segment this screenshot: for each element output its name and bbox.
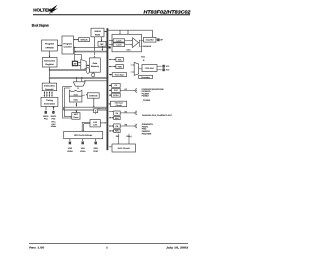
wire small box left down to IO box	[82, 121, 90, 123]
svg-text:VSS: VSS	[81, 147, 85, 149]
box audio amplifier	[144, 37, 157, 42]
svg-text:OSC2: OSC2	[51, 115, 57, 117]
svg-text:16K×8: 16K×8	[94, 31, 100, 33]
svg-text:PB3/PFD: PB3/PFD	[142, 131, 150, 133]
box PA data register	[114, 111, 121, 115]
svg-text:Data: Data	[93, 62, 98, 64]
wire bus-PC1	[109, 84, 111, 86]
svg-text:OSC1: OSC1	[43, 115, 49, 117]
svg-text:PA0/AUD~PA3, PA4/OSC1~PA7: PA0/AUD~PA3, PA4/OSC1~PA7	[142, 115, 172, 117]
svg-text:Time Base: Time Base	[115, 74, 125, 76]
svg-text:HT83F02/HT83C02: HT83F02/HT83C02	[143, 10, 190, 15]
wires bus to latches	[112, 40, 113, 41]
svg-text:VDDA: VDDA	[67, 150, 73, 152]
bus upper address path	[50, 69, 87, 71]
wire bus-PA2	[109, 117, 114, 119]
svg-text:Block Diagram: Block Diagram	[32, 23, 49, 27]
svg-text:PB2: PB2	[142, 128, 147, 130]
pad AUD output	[155, 39, 157, 41]
svg-text:Program: Program	[63, 43, 72, 45]
wire Data Memory down to ALU bus	[92, 71, 94, 74]
svg-text:PA4: PA4	[44, 118, 48, 120]
box SIM	[116, 58, 124, 62]
pad OSC2	[52, 111, 54, 114]
svg-text:Latch: Latch	[116, 44, 121, 46]
mux clock select	[134, 62, 138, 75]
wire small box left lower down to IO box	[84, 123, 90, 125]
wire bus to DAC box	[109, 146, 111, 148]
svg-text:WDT: WDT	[74, 113, 78, 115]
box Timing Generation	[41, 97, 58, 106]
svg-text:Interrupt: Interrupt	[115, 102, 123, 104]
svg-text:VSSA: VSSA	[80, 150, 85, 152]
svg-text:PC: PC	[125, 88, 128, 90]
wire bus-PC3	[109, 94, 111, 96]
svg-text:ALU: ALU	[73, 94, 77, 96]
svg-text:Counter: Counter	[64, 46, 72, 48]
pad VSS	[82, 139, 84, 141]
svg-text:PA7: PA7	[116, 136, 120, 138]
wire band to WDT	[75, 111, 77, 112]
svg-text:RES: RES	[94, 147, 98, 149]
svg-text:MP: MP	[100, 43, 103, 45]
box PC data register	[112, 84, 121, 88]
wire band to PA register	[109, 111, 112, 113]
box STATUS	[87, 93, 99, 98]
box Interrupt Circuit	[111, 101, 127, 106]
box voice latch 1	[113, 39, 124, 42]
bus main data bus horizontal	[50, 77, 108, 79]
box voice synthesizer outer	[112, 34, 142, 52]
pad RES	[95, 139, 97, 141]
box PC pull-high	[112, 93, 121, 97]
wires into clock mux	[131, 64, 133, 66]
svg-text:PB: PB	[125, 124, 128, 126]
wire bus-TMR	[109, 66, 116, 68]
wires bus into mux	[76, 79, 78, 81]
wire OSC2 pin	[53, 106, 55, 110]
mux oval upper bus end	[86, 68, 89, 74]
wire Program EPROM - Program Counter	[58, 45, 62, 47]
svg-text:STATUS: STATUS	[89, 95, 97, 97]
svg-text:ROM: ROM	[95, 34, 100, 36]
svg-text:PBC: PBC	[115, 130, 119, 132]
svg-text:2: 2	[106, 247, 108, 250]
svg-text:Amplifier: Amplifier	[146, 39, 154, 41]
wire mux to alu	[77, 86, 79, 88]
wire down from PC line to MP	[74, 47, 76, 60]
wire bus-TimeBase	[109, 74, 112, 76]
box MP	[98, 42, 106, 47]
svg-text:Prescaler: Prescaler	[141, 76, 150, 78]
wire main bus to alu mux top	[84, 80, 107, 82]
box MP	[72, 61, 77, 65]
wire PC to pins	[120, 90, 134, 92]
svg-text:XT1: XT1	[166, 66, 170, 68]
svg-text:I/O Port Driver: I/O Port Driver	[74, 134, 92, 136]
svg-text:Test: Test	[141, 56, 145, 58]
svg-text:ACC: ACC	[73, 99, 78, 101]
svg-text:PC4/INT: PC4/INT	[142, 93, 150, 95]
svg-text:DAC: DAC	[127, 49, 131, 51]
band lower data bus pair	[64, 106, 107, 108]
wire Program Counter - STACK	[74, 39, 79, 41]
box shifter small	[94, 109, 98, 113]
svg-text:SIM: SIM	[118, 59, 121, 61]
wire PB to pins	[120, 125, 134, 127]
wire bus-PB2	[109, 130, 114, 132]
wire MP to bus	[101, 46, 103, 49]
svg-text:Circuit: Circuit	[116, 104, 122, 106]
wire Instruction Register to Instruction Decoder	[49, 67, 51, 83]
wire Program EPROM to Instruction Register	[49, 51, 51, 58]
svg-text:RTC: RTC	[52, 121, 56, 123]
wire status down to band	[93, 98, 95, 107]
svg-text:32kHz: 32kHz	[51, 125, 56, 127]
wire ROM to main bus	[104, 31, 107, 33]
wire bus to voice section top	[107, 29, 152, 31]
svg-text:HOLTEK: HOLTEK	[33, 8, 51, 13]
wire MP to mux	[78, 62, 80, 64]
svg-text:STACK: STACK	[80, 39, 87, 41]
svg-text:Instruction: Instruction	[44, 85, 55, 87]
wire dac to amplifier	[138, 42, 141, 44]
pad XT2	[157, 69, 161, 71]
svg-text:SP: SP	[160, 39, 163, 41]
wire small box right to main bus	[100, 122, 105, 124]
svg-text:PCPU: PCPU	[113, 94, 118, 96]
pad VDD	[69, 139, 71, 141]
svg-text:Timing: Timing	[46, 100, 53, 102]
header rule	[33, 14, 190, 15]
svg-text:PC6/BZ: PC6/BZ	[143, 99, 150, 101]
fan PA pins	[134, 111, 136, 113]
box voice DAC bottom	[112, 144, 136, 152]
box RTC OSC	[142, 65, 157, 72]
svg-text:Generation: Generation	[44, 103, 55, 105]
box PB control	[114, 129, 121, 132]
svg-text:PC: PC	[115, 85, 118, 87]
wire bus-PC2	[109, 89, 111, 91]
svg-text:Decoder: Decoder	[45, 88, 53, 90]
svg-text:Program: Program	[45, 43, 54, 45]
fan PC pins	[134, 89, 136, 91]
svg-text:VDD: VDD	[68, 147, 72, 149]
wire mux to Data Memory	[87, 64, 90, 66]
pad XT1	[157, 65, 161, 67]
box ACC	[69, 96, 82, 102]
wire bus-PB1	[109, 125, 114, 127]
svg-text:PCC: PCC	[114, 90, 118, 92]
wires Decoder-Timing control arrows	[43, 92, 45, 97]
svg-text:PA0/AUD: PA0/AUD	[143, 46, 152, 48]
svg-text:RTC OSC: RTC OSC	[145, 67, 154, 69]
box Program EPROM	[42, 40, 58, 51]
box PB data register	[114, 124, 121, 128]
box Instruction Decoder	[42, 83, 56, 91]
box WDT	[72, 113, 80, 120]
svg-text:8: 8	[95, 110, 96, 112]
box STACK	[79, 38, 90, 42]
box IO ports wide	[64, 131, 103, 138]
footer rule	[29, 242, 188, 245]
svg-text:PC0/SCS/PC1/SCK/PC2/SDI: PC0/SCS/PC1/SCK/PC2/SDI	[142, 88, 164, 90]
wire ACC to band	[75, 103, 77, 107]
box Data Memory top	[91, 28, 104, 37]
svg-text:PC3/SDO: PC3/SDO	[142, 91, 151, 93]
box Instruction Register	[42, 58, 57, 68]
wire bus-SIM	[109, 59, 116, 61]
wire mux to rtc osc box	[139, 68, 141, 70]
wire down into DAC box right	[128, 134, 130, 143]
wire ROM to MP	[101, 37, 103, 42]
wire down into DAC box left	[118, 134, 120, 143]
svg-text:PB: PB	[116, 125, 119, 127]
band arrows to main bus	[98, 108, 105, 110]
svg-text:PB4/TMR: PB4/TMR	[142, 133, 152, 135]
svg-text:Timer: Timer	[73, 116, 78, 118]
svg-text:OSC: OSC	[51, 123, 55, 125]
svg-text:PC5/BZ: PC5/BZ	[142, 95, 149, 97]
svg-text:PAC: PAC	[115, 117, 119, 119]
bus PC data path	[74, 51, 107, 53]
svg-text:XT2: XT2	[166, 69, 170, 71]
wire ROM left output down to Data Memory	[94, 37, 96, 55]
mux above ALU	[73, 82, 85, 86]
bus main vertical	[106, 28, 108, 150]
svg-text:TMR: TMR	[118, 66, 122, 68]
wire PC to bus upper	[74, 46, 107, 48]
svg-text:LVD: LVD	[93, 124, 97, 126]
svg-text:Register: Register	[45, 63, 53, 65]
box PA control	[114, 116, 121, 119]
wires latches to dac	[125, 39, 132, 41]
wire branch to address mux top	[75, 53, 82, 55]
svg-text:PA5: PA5	[52, 118, 56, 120]
wire alu to status	[82, 94, 85, 96]
wire shifter loop left	[63, 86, 73, 88]
wire PA to pins	[120, 112, 134, 114]
svg-text:July 10, 2003: July 10, 2003	[166, 247, 188, 250]
svg-text:MP: MP	[74, 63, 77, 65]
svg-text:EPROM: EPROM	[45, 47, 53, 49]
box Data Memory	[90, 58, 101, 72]
svg-text:Instruction: Instruction	[44, 60, 55, 62]
svg-text:Latch: Latch	[116, 40, 121, 42]
dac triangle	[133, 38, 139, 48]
svg-text:PB1/T1: PB1/T1	[142, 126, 149, 128]
box PC control register	[112, 88, 121, 92]
svg-text:PB0/INT0: PB0/INT0	[142, 123, 153, 125]
box TMR	[116, 65, 124, 69]
wire OSC1 pin	[45, 106, 47, 110]
svg-text:PA: PA	[116, 112, 118, 114]
wire voice out 2 label	[138, 45, 140, 47]
box WDT prescaler	[139, 75, 153, 78]
box Program Counter	[62, 36, 74, 54]
svg-text:Memory: Memory	[91, 66, 99, 68]
svg-text:Rev. 1.00: Rev. 1.00	[29, 247, 44, 250]
pad OSC1	[45, 111, 47, 114]
svg-text:PA: PA	[125, 111, 127, 113]
svg-text:TEST: TEST	[93, 150, 98, 152]
box voice latch 2	[113, 43, 124, 47]
fan PB pins	[134, 124, 136, 126]
wire bus-interrupt	[109, 103, 110, 105]
alu	[69, 90, 82, 96]
mux for data memory address	[81, 60, 86, 71]
box interface circuit small	[90, 120, 100, 127]
svg-text:LVR: LVR	[93, 121, 97, 123]
svg-text:DAC Circuit: DAC Circuit	[118, 147, 130, 149]
box Timer Event Counter	[112, 73, 127, 77]
